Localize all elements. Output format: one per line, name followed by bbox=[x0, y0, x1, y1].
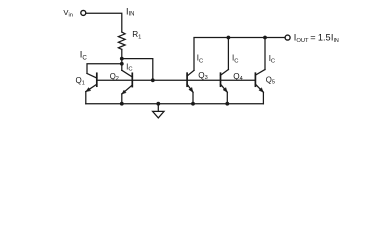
svg-text:IC: IC bbox=[232, 54, 238, 65]
svg-text:R1: R1 bbox=[132, 30, 141, 41]
node A junction bbox=[120, 57, 124, 61]
wire Vin terminal to input column bbox=[86, 13, 122, 32]
transistor Q1 bbox=[86, 73, 97, 103]
output rail junction Q5 bbox=[263, 36, 267, 40]
svg-text:IC: IC bbox=[197, 54, 203, 65]
emitter rail junction Q2 bbox=[120, 102, 124, 106]
transistor Q4 bbox=[221, 38, 229, 104]
terminal IOUT bbox=[285, 35, 290, 40]
wire Q1 collector to node B bbox=[87, 64, 122, 74]
svg-text:Q2: Q2 bbox=[110, 72, 119, 82]
transistor Q2 bbox=[122, 70, 133, 103]
svg-text:Q4: Q4 bbox=[233, 72, 243, 82]
node B junction bbox=[120, 62, 124, 66]
svg-text:IOUT=1.5IIN: IOUT=1.5IIN bbox=[294, 33, 339, 44]
svg-text:IC: IC bbox=[126, 63, 132, 73]
terminal Vin bbox=[81, 10, 86, 15]
emitter rail junction Q4 bbox=[225, 102, 229, 106]
emitter rail junction ground bbox=[156, 102, 160, 106]
emitter rail bbox=[86, 103, 264, 105]
svg-text:Vin: Vin bbox=[63, 8, 72, 18]
svg-text:Q1: Q1 bbox=[76, 76, 85, 87]
ground bbox=[153, 104, 164, 118]
resistor R1 bbox=[118, 32, 125, 49]
transistor Q5 bbox=[255, 38, 265, 104]
output rail to Q3 collector bbox=[194, 38, 285, 71]
emitter rail junction Q3 bbox=[191, 102, 195, 106]
output rail junction Q4 bbox=[227, 36, 231, 40]
svg-text:IIN: IIN bbox=[126, 6, 135, 17]
base rail junction bbox=[151, 78, 155, 82]
wire resistor bottom to Q2 collector bbox=[121, 49, 123, 70]
svg-text:IC: IC bbox=[269, 54, 275, 65]
svg-text:IC: IC bbox=[80, 49, 88, 62]
base rail bbox=[97, 79, 256, 81]
transistor Q3 bbox=[187, 70, 194, 103]
svg-text:Q3: Q3 bbox=[198, 71, 208, 81]
svg-text:Q5: Q5 bbox=[266, 75, 275, 85]
wire node A to base rail (diode connection) bbox=[122, 59, 153, 81]
